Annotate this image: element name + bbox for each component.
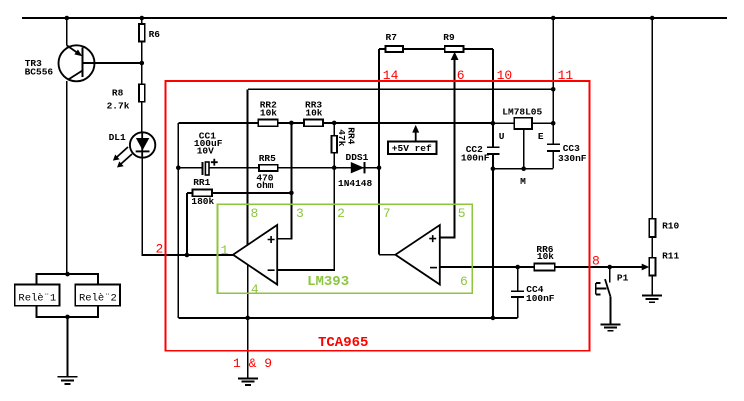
svg-text:R11: R11 <box>662 251 679 262</box>
svg-text:M: M <box>520 176 526 187</box>
svg-text:Relè¨1: Relè¨1 <box>18 292 56 304</box>
svg-text:47k: 47k <box>336 129 347 146</box>
svg-text:ohm: ohm <box>256 180 273 191</box>
svg-text:5: 5 <box>458 206 466 221</box>
svg-text:E: E <box>538 131 544 142</box>
svg-text:6: 6 <box>460 274 468 289</box>
svg-text:LM78L05: LM78L05 <box>502 106 542 117</box>
svg-text:180k: 180k <box>191 196 214 207</box>
svg-text:100nF: 100nF <box>526 293 555 304</box>
svg-text:R8: R8 <box>112 88 124 99</box>
svg-text:R7: R7 <box>386 32 398 43</box>
svg-text:10k: 10k <box>260 108 277 119</box>
svg-text:14: 14 <box>383 68 399 83</box>
svg-text:2.7k: 2.7k <box>107 100 130 111</box>
svg-text:4: 4 <box>251 282 259 297</box>
svg-text:RR5: RR5 <box>259 153 276 164</box>
svg-text:R6: R6 <box>149 29 161 40</box>
svg-text:100nF: 100nF <box>461 153 490 164</box>
svg-text:+5V ref: +5V ref <box>392 143 432 154</box>
svg-text:R10: R10 <box>662 220 679 231</box>
svg-text:1N4148: 1N4148 <box>338 178 373 189</box>
svg-text:7: 7 <box>383 206 391 221</box>
svg-text:3: 3 <box>296 206 304 221</box>
svg-text:TCA965: TCA965 <box>318 335 368 351</box>
svg-text:RR1: RR1 <box>193 177 210 188</box>
svg-text:Relè¨2: Relè¨2 <box>79 292 117 304</box>
svg-text:U: U <box>499 131 505 142</box>
svg-text:10k: 10k <box>305 108 322 119</box>
svg-text:10k: 10k <box>537 251 554 262</box>
svg-text:10V: 10V <box>197 145 214 156</box>
svg-text:6: 6 <box>457 68 465 83</box>
svg-text:2: 2 <box>156 242 164 257</box>
svg-text:DDS1: DDS1 <box>346 152 369 163</box>
svg-text:2: 2 <box>337 206 345 221</box>
svg-text:10: 10 <box>497 68 513 83</box>
svg-text:330nF: 330nF <box>558 153 587 164</box>
svg-text:1: 1 <box>221 243 229 258</box>
svg-text:LM393: LM393 <box>307 274 349 290</box>
svg-text:8: 8 <box>251 206 259 221</box>
svg-text:11: 11 <box>558 68 574 83</box>
svg-text:P1: P1 <box>617 272 629 283</box>
svg-text:DL1: DL1 <box>109 132 126 143</box>
svg-text:1 & 9: 1 & 9 <box>233 356 272 371</box>
svg-text:8: 8 <box>592 254 600 269</box>
svg-text:R9: R9 <box>443 32 455 43</box>
svg-text:BC556: BC556 <box>25 67 54 78</box>
